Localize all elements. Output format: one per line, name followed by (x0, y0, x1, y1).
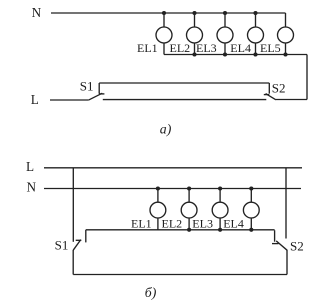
svg-text:L: L (31, 92, 39, 107)
junction dot EL4 on N (circuit a) (253, 11, 257, 15)
wire right vertical bus to S2 (circuit a) (306, 55, 308, 100)
svg-text:EL3: EL3 (192, 217, 213, 231)
svg-text:S2: S2 (272, 81, 286, 96)
switch S1 lever tip serif (circuit a) (99, 93, 105, 95)
svg-text:EL4: EL4 (223, 217, 244, 231)
wire EL4 top drop (circuit b) (250, 189, 252, 203)
wire EL5 top drop (circuit a) (285, 13, 287, 27)
wire EL3 bottom drop (circuit b) (219, 218, 221, 230)
wire EL3 top drop (circuit a) (224, 13, 226, 27)
wire S2 common down segment (circuit b) (286, 250, 288, 275)
wire right feed from L to S2 (circuit b) (285, 168, 287, 239)
wire N rail (circuit a) (51, 12, 286, 14)
svg-text:N: N (32, 5, 42, 20)
wire N rail (circuit b) (44, 188, 301, 190)
svg-text:S1: S1 (80, 78, 94, 93)
junction dot EL1 on N (circuit a) (162, 11, 166, 15)
wire L rail (circuit b) (44, 167, 302, 169)
wire EL5 bottom drop (circuit a) (285, 43, 287, 55)
svg-text:S2: S2 (290, 238, 304, 253)
switch S1 lever (circuit b) (73, 240, 81, 251)
lamp EL1 (circuit a) (156, 27, 172, 43)
lamp EL2 (circuit a) (187, 27, 203, 43)
svg-text:EL5: EL5 (260, 41, 281, 55)
lamp EL1 (circuit b) (150, 202, 166, 218)
svg-text:EL1: EL1 (131, 217, 152, 231)
svg-text:EL2: EL2 (170, 41, 191, 55)
wire EL4 bottom drop (circuit a) (255, 43, 257, 55)
wire bottom traveller (circuit a) (103, 99, 266, 101)
wire top traveller (circuit a) (99, 82, 269, 84)
svg-text:EL3: EL3 (196, 41, 217, 55)
svg-text:a): a) (160, 122, 172, 138)
switch S2 lever tip serif (circuit a) (264, 94, 270, 96)
junction dot EL2 on N (circuit b) (187, 186, 191, 190)
wire left feed from L to S1 (circuit b) (72, 168, 74, 242)
switch S2 lever (circuit b) (276, 241, 287, 250)
wire EL3 bottom drop (circuit a) (224, 43, 226, 55)
junction dot EL5 on bus (circuit a) (283, 52, 287, 56)
wire EL2 bottom drop (circuit b) (188, 218, 190, 230)
svg-text:L: L (26, 159, 34, 174)
wire EL4 top drop (circuit a) (255, 13, 257, 27)
wire L feed (circuit a) (50, 99, 88, 101)
switch S2 lever tip serif (circuit b) (272, 243, 279, 245)
svg-text:EL2: EL2 (162, 217, 183, 231)
junction dot EL2 on N (circuit a) (192, 11, 196, 15)
switch S1 throw contact tick (circuit b) (85, 230, 87, 243)
junction dot EL3 on bus (circuit a) (223, 52, 227, 56)
wire S2 common segment (circuit a) (276, 99, 307, 101)
junction dot EL4 on bus (circuit a) (253, 52, 257, 56)
lamp EL4 (circuit b) (243, 202, 259, 218)
svg-text:S1: S1 (55, 238, 69, 253)
wire EL2 top drop (circuit a) (194, 13, 196, 27)
switch S1 lever tip serif (circuit b) (76, 239, 82, 241)
junction dot EL4 on N (circuit b) (249, 186, 253, 190)
switch S1 throw contact tick (circuit a) (98, 83, 100, 94)
switch S2 lever (circuit a) (266, 94, 276, 100)
wire S1 common down segment (circuit b) (72, 250, 74, 275)
switch S1 lever (circuit a) (88, 93, 102, 100)
junction dot EL3 on N (circuit b) (218, 186, 222, 190)
wire EL2 top drop (circuit b) (188, 189, 190, 203)
junction dot EL2 on bus (circuit b) (187, 228, 191, 232)
junction dot EL2 on bus (circuit a) (192, 52, 196, 56)
svg-text:EL1: EL1 (137, 41, 158, 55)
wire lamp bus (circuit a) (164, 54, 307, 56)
svg-text:N: N (27, 180, 37, 195)
svg-text:б): б) (145, 285, 157, 301)
wire EL4 bottom drop (circuit b) (250, 218, 252, 230)
wire EL3 top drop (circuit b) (219, 189, 221, 203)
junction dot EL3 on bus (circuit b) (218, 228, 222, 232)
wire EL1 bottom drop (circuit a) (163, 43, 165, 55)
wire EL2 bottom drop (circuit a) (194, 43, 196, 55)
lamp EL3 (circuit a) (217, 27, 233, 43)
lamp EL5 (circuit a) (278, 27, 294, 43)
lamp EL4 (circuit a) (248, 27, 264, 43)
junction dot EL3 on N (circuit a) (223, 11, 227, 15)
lamp EL3 (circuit b) (212, 202, 228, 218)
wire EL1 top drop (circuit a) (163, 13, 165, 27)
wire EL1 bottom drop (circuit b) (157, 218, 159, 230)
switch S2 throw contact tick (circuit b) (274, 230, 276, 241)
wire bottom rail (circuit b) (73, 274, 287, 276)
svg-text:EL4: EL4 (230, 41, 251, 55)
wire EL1 top drop (circuit b) (157, 189, 159, 203)
junction dot EL1 on N (circuit b) (156, 186, 160, 190)
junction dot EL4 on bus (circuit b) (249, 228, 253, 232)
lamp EL2 (circuit b) (181, 202, 197, 218)
switch S2 throw contact tick (circuit a) (268, 83, 270, 94)
wire lamp bus (circuit b) (86, 229, 275, 231)
